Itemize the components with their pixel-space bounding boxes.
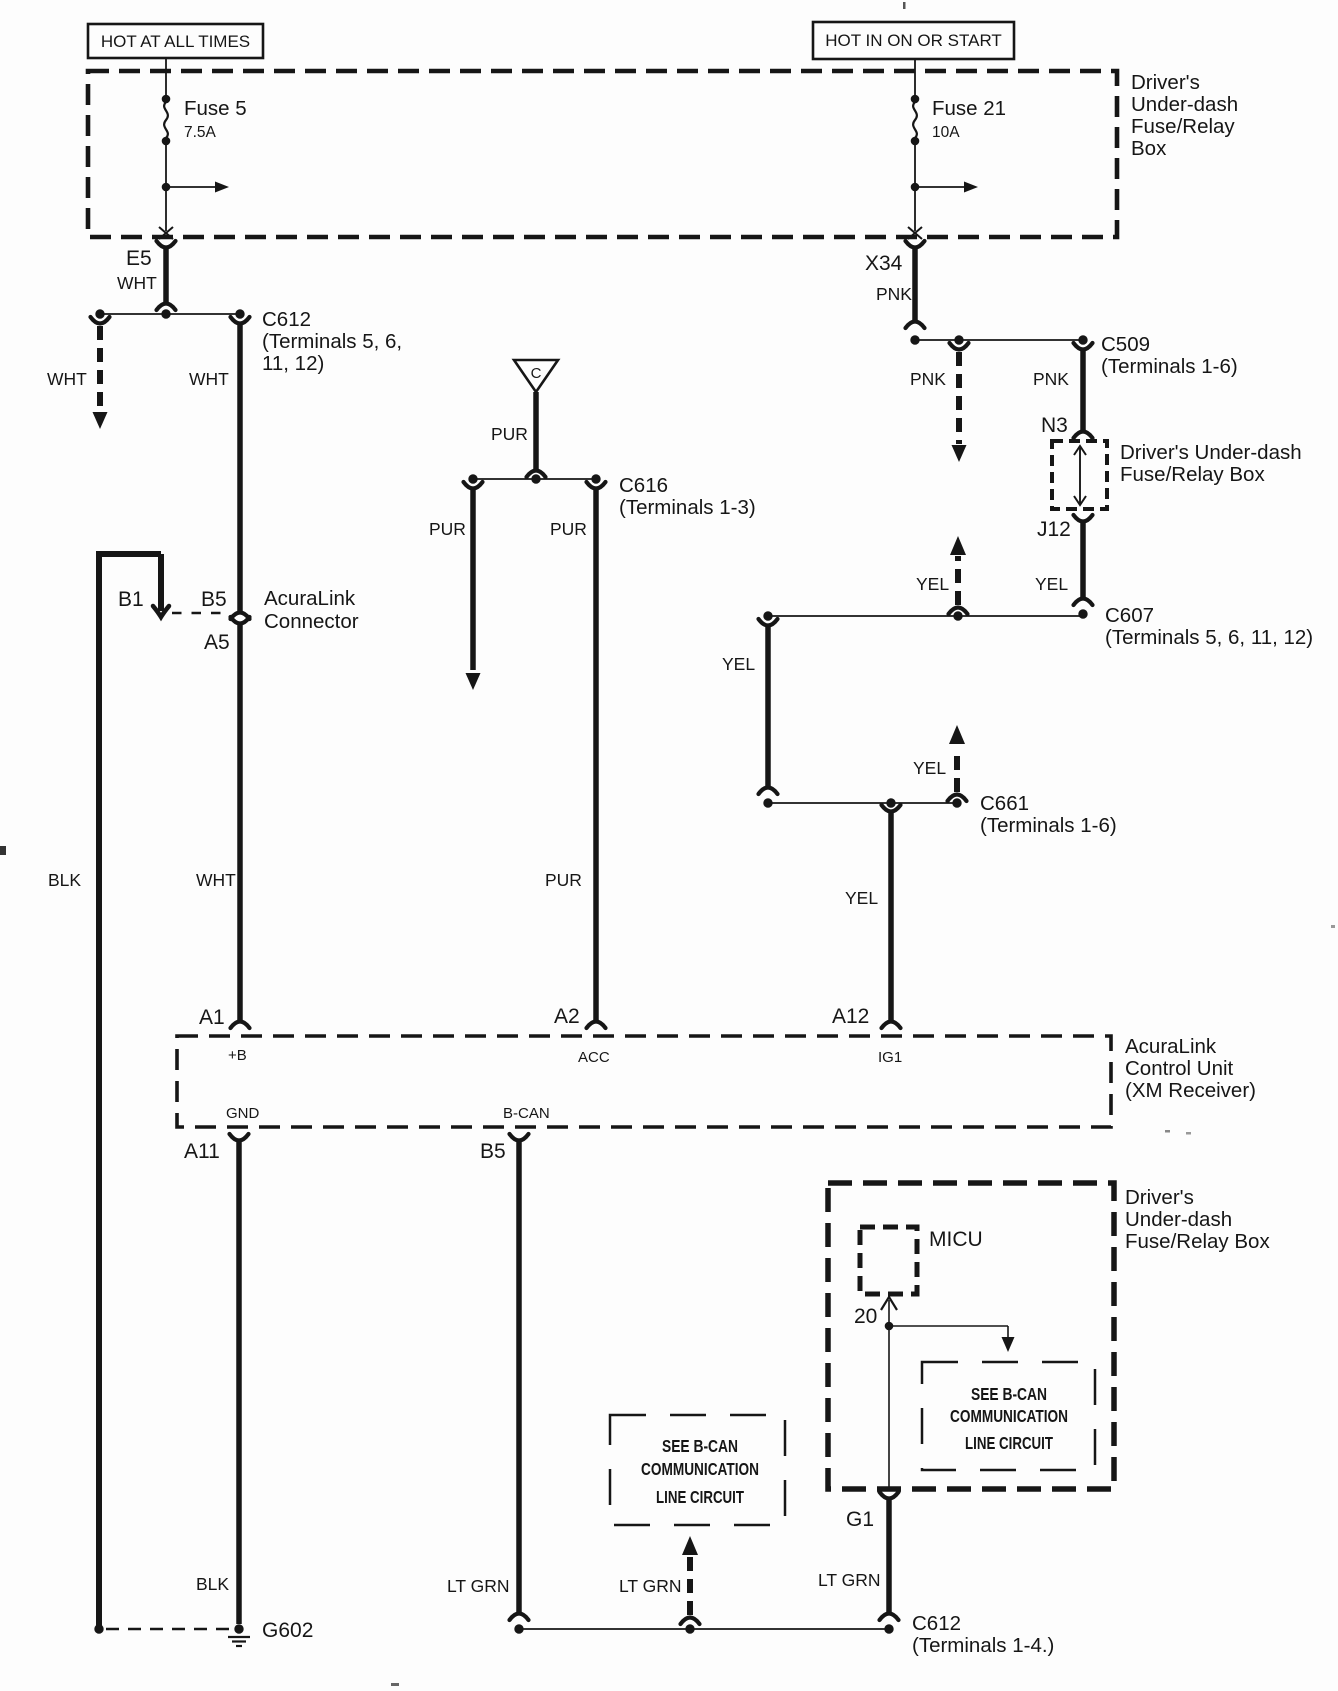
svg-text:YEL: YEL xyxy=(1035,574,1068,594)
svg-text:C509: C509 xyxy=(1101,333,1150,356)
svg-text:10A: 10A xyxy=(932,124,960,141)
svg-text:PNK: PNK xyxy=(1033,369,1069,389)
svg-text:C616: C616 xyxy=(619,474,668,497)
svg-text:Connector: Connector xyxy=(264,610,359,633)
svg-text:LINE CIRCUIT: LINE CIRCUIT xyxy=(965,1433,1053,1453)
svg-text:PNK: PNK xyxy=(876,284,912,304)
svg-text:PNK: PNK xyxy=(910,369,946,389)
svg-text:Fuse/Relay Box: Fuse/Relay Box xyxy=(1120,463,1265,486)
svg-text:YEL: YEL xyxy=(845,888,878,908)
svg-text:MICU: MICU xyxy=(929,1228,983,1251)
svg-text:Under-dash: Under-dash xyxy=(1125,1208,1232,1231)
svg-text:(Terminals 5, 6, 11, 12): (Terminals 5, 6, 11, 12) xyxy=(1105,626,1313,649)
svg-text:20: 20 xyxy=(854,1305,877,1328)
svg-text:B1: B1 xyxy=(118,588,144,611)
svg-text:SEE B-CAN: SEE B-CAN xyxy=(971,1384,1047,1404)
svg-text:Fuse/Relay Box: Fuse/Relay Box xyxy=(1125,1230,1270,1253)
svg-text:(Terminals 1-6): (Terminals 1-6) xyxy=(1101,355,1238,378)
svg-text:B-CAN: B-CAN xyxy=(503,1105,550,1122)
svg-text:HOT AT ALL TIMES: HOT AT ALL TIMES xyxy=(101,32,250,51)
svg-text:A12: A12 xyxy=(832,1005,869,1028)
svg-text:Driver's: Driver's xyxy=(1131,71,1200,94)
svg-text:(Terminals 1-6): (Terminals 1-6) xyxy=(980,814,1117,837)
svg-text:LT GRN: LT GRN xyxy=(818,1570,881,1590)
svg-text:GND: GND xyxy=(226,1105,260,1122)
svg-text:Under-dash: Under-dash xyxy=(1131,93,1238,116)
svg-text:7.5A: 7.5A xyxy=(184,124,217,141)
svg-text:B5: B5 xyxy=(480,1140,506,1163)
svg-text:(XM Receiver): (XM Receiver) xyxy=(1125,1079,1256,1102)
svg-text:G1: G1 xyxy=(846,1508,874,1531)
svg-text:ACC: ACC xyxy=(578,1049,610,1066)
svg-text:(Terminals 1-4.): (Terminals 1-4.) xyxy=(912,1634,1054,1657)
svg-text:C607: C607 xyxy=(1105,604,1154,627)
svg-text:Control Unit: Control Unit xyxy=(1125,1057,1234,1080)
svg-text:YEL: YEL xyxy=(916,574,949,594)
svg-text:E5: E5 xyxy=(126,247,152,270)
svg-text:C612: C612 xyxy=(912,1612,961,1635)
svg-text:A11: A11 xyxy=(184,1140,220,1163)
svg-text:11, 12): 11, 12) xyxy=(262,352,324,375)
svg-text:LT GRN: LT GRN xyxy=(447,1576,510,1596)
svg-text:LINE CIRCUIT: LINE CIRCUIT xyxy=(656,1487,744,1507)
svg-text:B5: B5 xyxy=(201,588,227,611)
svg-text:YEL: YEL xyxy=(913,758,946,778)
svg-text:COMMUNICATION: COMMUNICATION xyxy=(950,1406,1068,1426)
svg-text:WHT: WHT xyxy=(47,369,87,389)
svg-text:C661: C661 xyxy=(980,792,1029,815)
svg-text:G602: G602 xyxy=(262,1619,313,1642)
svg-text:WHT: WHT xyxy=(189,369,229,389)
svg-text:A1: A1 xyxy=(199,1006,225,1029)
svg-text:(Terminals 5, 6,: (Terminals 5, 6, xyxy=(262,330,402,353)
svg-text:AcuraLink: AcuraLink xyxy=(264,587,356,610)
svg-text:J12: J12 xyxy=(1037,518,1071,541)
svg-text:PUR: PUR xyxy=(491,424,528,444)
svg-text:A5: A5 xyxy=(204,631,230,654)
svg-text:N3: N3 xyxy=(1041,414,1068,437)
svg-text:LT GRN: LT GRN xyxy=(619,1576,682,1596)
svg-text:C: C xyxy=(531,365,542,382)
svg-text:HOT IN ON OR START: HOT IN ON OR START xyxy=(825,31,1002,50)
svg-text:Box: Box xyxy=(1131,137,1167,160)
svg-text:COMMUNICATION: COMMUNICATION xyxy=(641,1459,759,1479)
svg-text:Fuse/Relay: Fuse/Relay xyxy=(1131,115,1235,138)
svg-text:Fuse 21: Fuse 21 xyxy=(932,97,1006,120)
svg-text:WHT: WHT xyxy=(117,273,157,293)
svg-text:A2: A2 xyxy=(554,1005,580,1028)
svg-text:IG1: IG1 xyxy=(878,1049,902,1066)
svg-text:PUR: PUR xyxy=(429,519,466,539)
svg-text:SEE B-CAN: SEE B-CAN xyxy=(662,1436,738,1456)
svg-text:BLK: BLK xyxy=(196,1574,229,1594)
svg-text:AcuraLink: AcuraLink xyxy=(1125,1035,1217,1058)
svg-text:+B: +B xyxy=(228,1047,247,1064)
svg-text:Fuse 5: Fuse 5 xyxy=(184,97,247,120)
svg-text:(Terminals 1-3): (Terminals 1-3) xyxy=(619,496,756,519)
svg-text:X34: X34 xyxy=(865,252,903,275)
svg-text:Driver's Under-dash: Driver's Under-dash xyxy=(1120,441,1302,464)
svg-text:PUR: PUR xyxy=(545,870,582,890)
svg-text:YEL: YEL xyxy=(722,654,755,674)
svg-text:C612: C612 xyxy=(262,308,311,331)
svg-text:PUR: PUR xyxy=(550,519,587,539)
svg-text:WHT: WHT xyxy=(196,870,236,890)
svg-text:Driver's: Driver's xyxy=(1125,1186,1194,1209)
svg-text:BLK: BLK xyxy=(48,870,81,890)
